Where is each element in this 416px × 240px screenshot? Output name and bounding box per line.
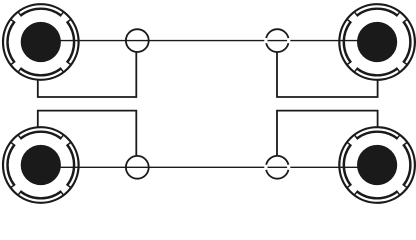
connector: jack plug bottom-left — [3, 127, 79, 203]
node: solder ring bottom-right — [266, 156, 288, 179]
wire: lower-left shield staple — [38, 111, 137, 156]
connector: jack plug bottom-right — [339, 127, 415, 203]
wire: upper-right shield staple — [277, 52, 378, 97]
wire: lower-right shield staple — [277, 111, 378, 156]
wire: top signal rail — [40, 40, 377, 42]
connector: jack plug top-right — [339, 4, 415, 80]
wire: upper-left shield staple — [38, 52, 137, 97]
node: solder ring top-right — [266, 29, 288, 52]
wire: bottom signal rail — [40, 166, 377, 168]
node: solder ring bottom-left — [126, 156, 149, 179]
connector: jack plug top-left — [3, 4, 79, 80]
node: solder ring top-left — [126, 29, 149, 52]
